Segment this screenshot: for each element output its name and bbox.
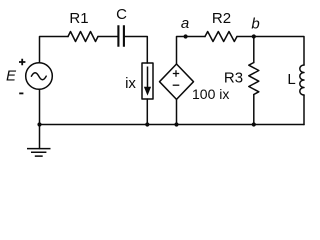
capacitor C plates xyxy=(118,25,124,47)
junction dot: dependent source branch xyxy=(174,122,178,126)
node b junction dot xyxy=(252,34,256,38)
minus sign of source E xyxy=(19,92,23,94)
sine wave inside source E xyxy=(31,73,46,80)
svg-text:R1: R1 xyxy=(69,10,88,27)
plus sign of source E xyxy=(19,59,25,65)
bottom rail wire xyxy=(40,124,305,126)
resistor R1 xyxy=(68,32,98,42)
svg-text:E: E xyxy=(6,67,17,84)
node a junction dot xyxy=(184,34,188,38)
svg-text:a: a xyxy=(181,15,189,32)
wire: dependent source bottom to bottom rail xyxy=(176,99,178,124)
plus sign in diamond xyxy=(173,70,179,76)
wire: R1 to capacitor C xyxy=(98,36,117,38)
wire: source E top to R1 xyxy=(40,37,69,63)
wire: C to ix box, corner down xyxy=(125,37,147,64)
svg-text:100 ix: 100 ix xyxy=(192,86,229,102)
ground bars xyxy=(27,149,51,157)
arrow inside ix box xyxy=(147,67,149,88)
wire: dependent source top to node a rail xyxy=(177,37,206,65)
wire: R2 to node b to right corner xyxy=(237,37,304,66)
svg-text:R3: R3 xyxy=(224,70,243,87)
wire: R3 to bottom rail xyxy=(253,95,255,125)
ground stem xyxy=(39,125,41,149)
voltage source E circle xyxy=(26,63,53,90)
dependent source diamond xyxy=(160,64,194,99)
resistor R2 xyxy=(205,32,237,42)
wire: source E bottom to bottom rail xyxy=(39,89,41,124)
junction dot: R3 branch xyxy=(252,122,256,126)
junction dot: ix branch xyxy=(145,122,149,126)
svg-text:b: b xyxy=(251,15,259,32)
wire: L bottom to bottom rail xyxy=(303,95,305,125)
svg-text:L: L xyxy=(287,71,295,88)
resistor R3 xyxy=(249,63,259,95)
inductor L coil xyxy=(300,65,304,95)
current element ix box xyxy=(142,63,153,99)
svg-text:C: C xyxy=(116,6,127,23)
wire: node b down to R3 xyxy=(253,37,255,63)
svg-text:ix: ix xyxy=(125,75,136,92)
wire: ix box bottom to bottom rail xyxy=(146,99,148,125)
svg-text:R2: R2 xyxy=(212,10,231,27)
junction dot: E / ground xyxy=(37,122,41,126)
minus sign in diamond xyxy=(173,84,180,86)
